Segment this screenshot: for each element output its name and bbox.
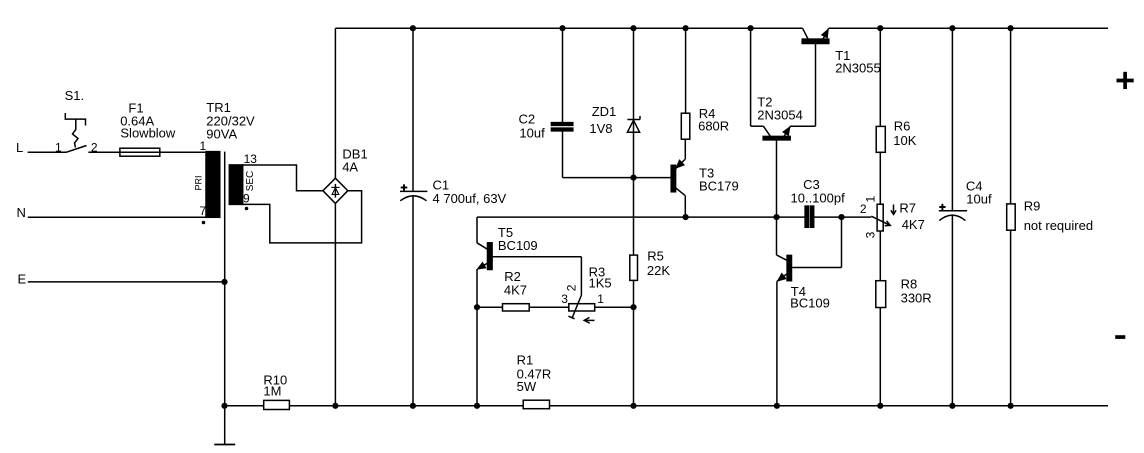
- svg-text:R6: R6: [894, 118, 911, 133]
- svg-text:2: 2: [565, 284, 579, 291]
- svg-text:SEC: SEC: [245, 171, 256, 192]
- resistor R8: [876, 277, 932, 406]
- svg-text:10..100pf: 10..100pf: [791, 190, 846, 205]
- node T5 emitter R2: [474, 304, 480, 310]
- svg-text:1K5: 1K5: [589, 276, 612, 291]
- switch S1: [55, 88, 98, 155]
- svg-text:4A: 4A: [342, 160, 358, 175]
- wire N to transformer: [28, 216, 206, 218]
- node T3 collector mid rail: [683, 214, 689, 220]
- svg-text:90VA: 90VA: [206, 126, 237, 141]
- wire C2 to T3 base: [563, 177, 672, 179]
- svg-text:3: 3: [864, 231, 878, 238]
- resistor R10: [263, 373, 289, 410]
- node R5 bottom: [630, 403, 636, 409]
- resistor R5: [630, 249, 671, 281]
- wire sec pin13 to bridge: [243, 165, 323, 191]
- wire top rail left segment: [335, 27, 802, 29]
- svg-text:Slowblow: Slowblow: [120, 126, 176, 141]
- node C2 top: [559, 25, 565, 31]
- node R9 top: [1008, 25, 1014, 31]
- wire E to core: [28, 281, 225, 283]
- bridge rectifier DB1: [323, 147, 368, 204]
- capacitor C1: [400, 28, 507, 406]
- transistor T2: [751, 28, 816, 140]
- svg-text:330R: 330R: [901, 290, 932, 305]
- svg-text:R7: R7: [899, 200, 916, 215]
- wire R3 to R5 node: [595, 306, 634, 308]
- resistor R2: [477, 269, 529, 311]
- wire R7 to R8: [879, 231, 881, 281]
- zener ZD1: [589, 104, 640, 136]
- svg-text:7: 7: [200, 204, 207, 218]
- svg-text:N: N: [17, 205, 26, 220]
- capacitor C2: [519, 28, 573, 177]
- svg-text:PRI: PRI: [194, 175, 204, 190]
- svg-text:3: 3: [561, 292, 568, 306]
- node R9 bottom: [1008, 403, 1014, 409]
- node ZD1 top: [630, 25, 636, 31]
- trimmer R3: [561, 264, 611, 323]
- svg-text:10uf: 10uf: [519, 126, 545, 141]
- svg-text:S1.: S1.: [65, 88, 85, 103]
- svg-text:BC109: BC109: [790, 296, 830, 311]
- svg-text:2N3055: 2N3055: [835, 61, 881, 76]
- node N: [17, 205, 26, 220]
- wire ZD1/R5 vertical: [633, 28, 635, 255]
- svg-text:1V8: 1V8: [589, 121, 612, 136]
- terminal +: [1117, 72, 1134, 89]
- wire bridge bottom to - rail: [334, 203, 336, 405]
- wire bottom rail: [225, 405, 1109, 407]
- svg-text:4K7: 4K7: [902, 217, 925, 232]
- svg-text:9: 9: [243, 191, 250, 205]
- transistor T3: [671, 139, 739, 217]
- node T4 emitter bottom: [774, 403, 780, 409]
- wire switch to fuse: [88, 151, 205, 153]
- transistor T5: [477, 217, 581, 406]
- resistor R6: [876, 28, 917, 204]
- terminal -: [1115, 335, 1125, 339]
- svg-text:1M: 1M: [263, 384, 281, 399]
- node C4 top: [949, 25, 955, 31]
- node R4 top: [683, 25, 689, 31]
- ground: [214, 444, 235, 446]
- wire L to switch: [28, 151, 67, 153]
- svg-text:BC179: BC179: [699, 179, 739, 194]
- node C3 left: [773, 214, 779, 220]
- resistor R4: [681, 28, 729, 139]
- node C4 bottom: [949, 403, 955, 409]
- transformer TR1: [194, 100, 258, 224]
- svg-text:R1: R1: [517, 353, 534, 368]
- svg-text:5W: 5W: [517, 379, 537, 394]
- node DB1 bottom: [332, 403, 338, 409]
- wire top rail right segment: [829, 27, 1108, 29]
- transformer core line: [224, 152, 226, 445]
- svg-text:C2: C2: [519, 111, 536, 126]
- transistor T1: [802, 28, 881, 75]
- svg-text:10K: 10K: [893, 133, 916, 148]
- node R6 top: [877, 25, 883, 31]
- svg-text:1: 1: [200, 139, 207, 153]
- node E junction: [221, 279, 227, 285]
- wire C3 right to R7: [814, 216, 872, 218]
- svg-text:1: 1: [597, 292, 604, 306]
- wire T2 base down to mid rail: [776, 140, 778, 217]
- svg-text:4 700uf, 63V: 4 700uf, 63V: [433, 191, 507, 206]
- wire sec pin9 to bridge: [243, 191, 362, 243]
- svg-text:22K: 22K: [647, 263, 670, 278]
- resistor R1: [517, 353, 552, 409]
- node C1 bottom: [410, 403, 416, 409]
- wire bridge top to + rail: [334, 28, 336, 178]
- node ground rail left: [221, 403, 227, 409]
- node R8 bottom: [877, 403, 883, 409]
- node E: [18, 272, 27, 287]
- node R3 R5: [630, 304, 636, 310]
- wire R2 to R3: [529, 306, 569, 308]
- svg-text:R5: R5: [647, 249, 664, 264]
- svg-text:2N3054: 2N3054: [757, 107, 803, 122]
- node L: [16, 140, 23, 155]
- svg-text:not required: not required: [1024, 218, 1093, 233]
- capacitor C3: [791, 177, 846, 227]
- svg-text:4K7: 4K7: [504, 283, 527, 298]
- svg-text:E: E: [18, 272, 27, 287]
- node T5 emitter bottom: [474, 403, 480, 409]
- svg-text:13: 13: [244, 152, 258, 166]
- svg-text:R8: R8: [901, 277, 918, 292]
- node C3 right: [838, 214, 844, 220]
- trimmer R7: [860, 195, 925, 238]
- svg-text:R9: R9: [1024, 199, 1041, 214]
- svg-text:2: 2: [860, 202, 867, 216]
- svg-text:BC109: BC109: [498, 238, 538, 253]
- resistor R9: [1007, 28, 1093, 406]
- node T2 collector top: [748, 25, 754, 31]
- node C1 top: [410, 25, 416, 31]
- wire R5 to bottom rail: [633, 280, 635, 405]
- node ZD1 T3 base: [630, 175, 636, 181]
- wire mid rail: [477, 216, 805, 218]
- transistor T4: [777, 217, 842, 406]
- svg-text:1: 1: [55, 140, 62, 154]
- svg-text:ZD1: ZD1: [592, 104, 617, 119]
- svg-text:L: L: [16, 140, 23, 155]
- svg-text:R2: R2: [504, 269, 521, 284]
- svg-text:10uf: 10uf: [966, 192, 992, 207]
- capacitor C4: [939, 28, 992, 406]
- svg-text:680R: 680R: [698, 118, 729, 133]
- wire T2 emitter to T1 base: [815, 44, 817, 127]
- fuse F1: [120, 100, 176, 156]
